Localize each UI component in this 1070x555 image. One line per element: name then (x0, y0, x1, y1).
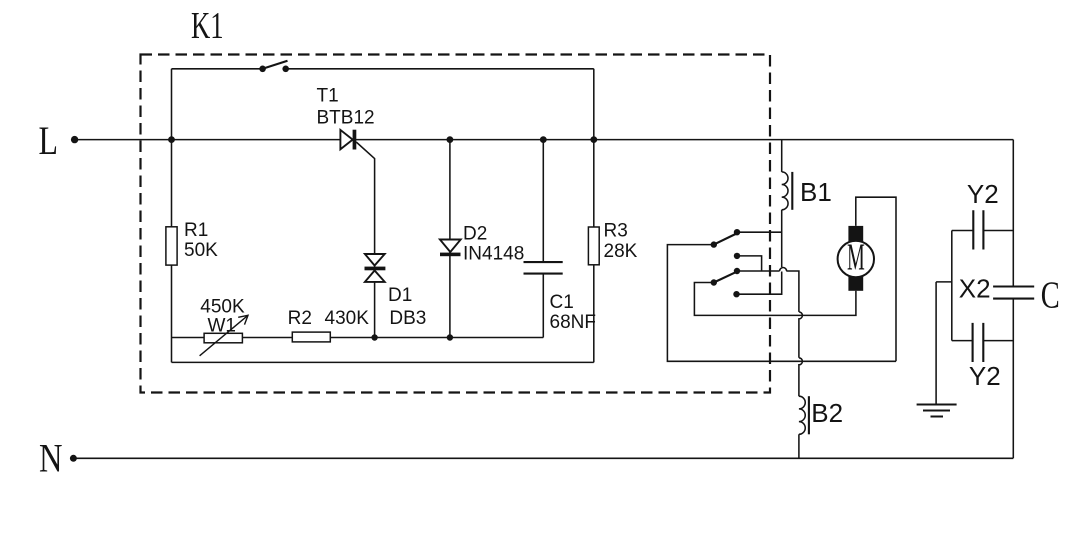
svg-text:IN4148: IN4148 (463, 243, 524, 264)
svg-text:L: L (39, 118, 59, 163)
svg-text:R2: R2 (288, 308, 312, 329)
svg-text:DB3: DB3 (389, 308, 426, 329)
svg-text:B2: B2 (811, 398, 843, 428)
svg-text:430K: 430K (325, 308, 370, 329)
svg-text:T1: T1 (317, 85, 339, 106)
svg-text:M: M (847, 236, 865, 278)
svg-text:R1: R1 (184, 220, 208, 241)
svg-text:D1: D1 (388, 285, 412, 306)
svg-text:C: C (1041, 275, 1060, 317)
svg-text:50K: 50K (184, 240, 218, 261)
svg-text:28K: 28K (604, 241, 638, 262)
svg-text:BTB12: BTB12 (317, 108, 375, 129)
svg-text:450K: 450K (200, 296, 245, 317)
svg-text:Y2: Y2 (969, 361, 1001, 391)
svg-text:X2: X2 (959, 274, 991, 304)
svg-text:C1: C1 (550, 292, 574, 313)
svg-text:68NF: 68NF (550, 312, 596, 333)
svg-text:R3: R3 (604, 221, 628, 242)
svg-text:K1: K1 (191, 5, 224, 47)
svg-text:N: N (39, 435, 63, 480)
svg-text:B1: B1 (800, 177, 832, 207)
svg-text:W1: W1 (208, 316, 237, 337)
svg-text:D2: D2 (463, 224, 487, 245)
svg-text:Y2: Y2 (967, 179, 999, 209)
